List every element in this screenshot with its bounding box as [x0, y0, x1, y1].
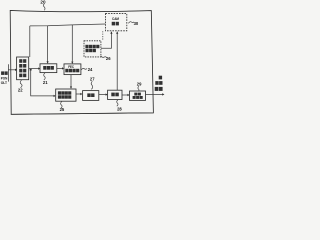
clock/data bus wire	[30, 24, 106, 26]
svg-text:OLT: OLT	[1, 80, 8, 85]
label 30	[128, 22, 134, 24]
bus riser from receiver	[29, 26, 31, 57]
input port line	[7, 64, 9, 81]
block 21: decoder	[40, 64, 57, 73]
label 24	[81, 68, 87, 70]
junction node	[30, 69, 32, 71]
svg-text:24: 24	[88, 67, 93, 72]
wire framer to mux	[76, 93, 81, 95]
leader squiggle for label 20	[43, 4, 45, 11]
svg-text:30: 30	[134, 21, 139, 26]
label 22	[20, 80, 22, 88]
wire parser to CAM	[101, 34, 111, 49]
dashed link CAM to parser	[102, 31, 104, 40]
svg-text:29: 29	[137, 81, 142, 86]
input wire arrow into receiver	[8, 69, 15, 71]
svg-text:FEC: FEC	[68, 65, 74, 69]
svg-text:28: 28	[117, 107, 122, 112]
svg-text:CAM: CAM	[112, 17, 119, 21]
bus drop to FEC decoder	[71, 25, 73, 62]
wire modulator to CAM	[116, 34, 118, 91]
label 25	[61, 101, 62, 108]
dashed block 30: CAM unit	[106, 14, 127, 31]
block 29: laser transmitter	[130, 91, 146, 100]
branch wire to framer	[31, 69, 54, 96]
wire receiver to decoder	[29, 68, 39, 70]
dashed block 26: downstream header parser	[84, 41, 101, 57]
wire FEC decoder down to framer	[70, 75, 72, 87]
svg-text:22: 22	[18, 88, 23, 93]
label 28	[117, 100, 118, 106]
wire modulator to laser	[122, 94, 128, 96]
output text: 到 用户 设备	[155, 76, 163, 91]
svg-text:20: 20	[40, 0, 46, 5]
input text: 来自 PON OLT	[1, 71, 8, 85]
outer enclosure box 20	[10, 10, 153, 114]
svg-text:26: 26	[106, 56, 111, 61]
svg-text:21: 21	[43, 80, 48, 85]
block 25: framer	[56, 89, 76, 101]
wire mux to modulator	[99, 94, 106, 96]
block 24: FEC decoder	[64, 64, 81, 75]
block 28: modulator	[108, 90, 122, 99]
block 22: burst optical receiver (tall box)	[17, 57, 29, 80]
block 27: mux	[83, 91, 99, 101]
output wire with arrow	[146, 93, 163, 95]
svg-text:25: 25	[60, 107, 65, 112]
bus drop to decoder	[47, 26, 49, 62]
label 21	[44, 73, 46, 80]
label 26	[101, 56, 107, 57]
svg-text:27: 27	[90, 77, 95, 82]
wire decoder to FEC decoder	[57, 67, 62, 69]
